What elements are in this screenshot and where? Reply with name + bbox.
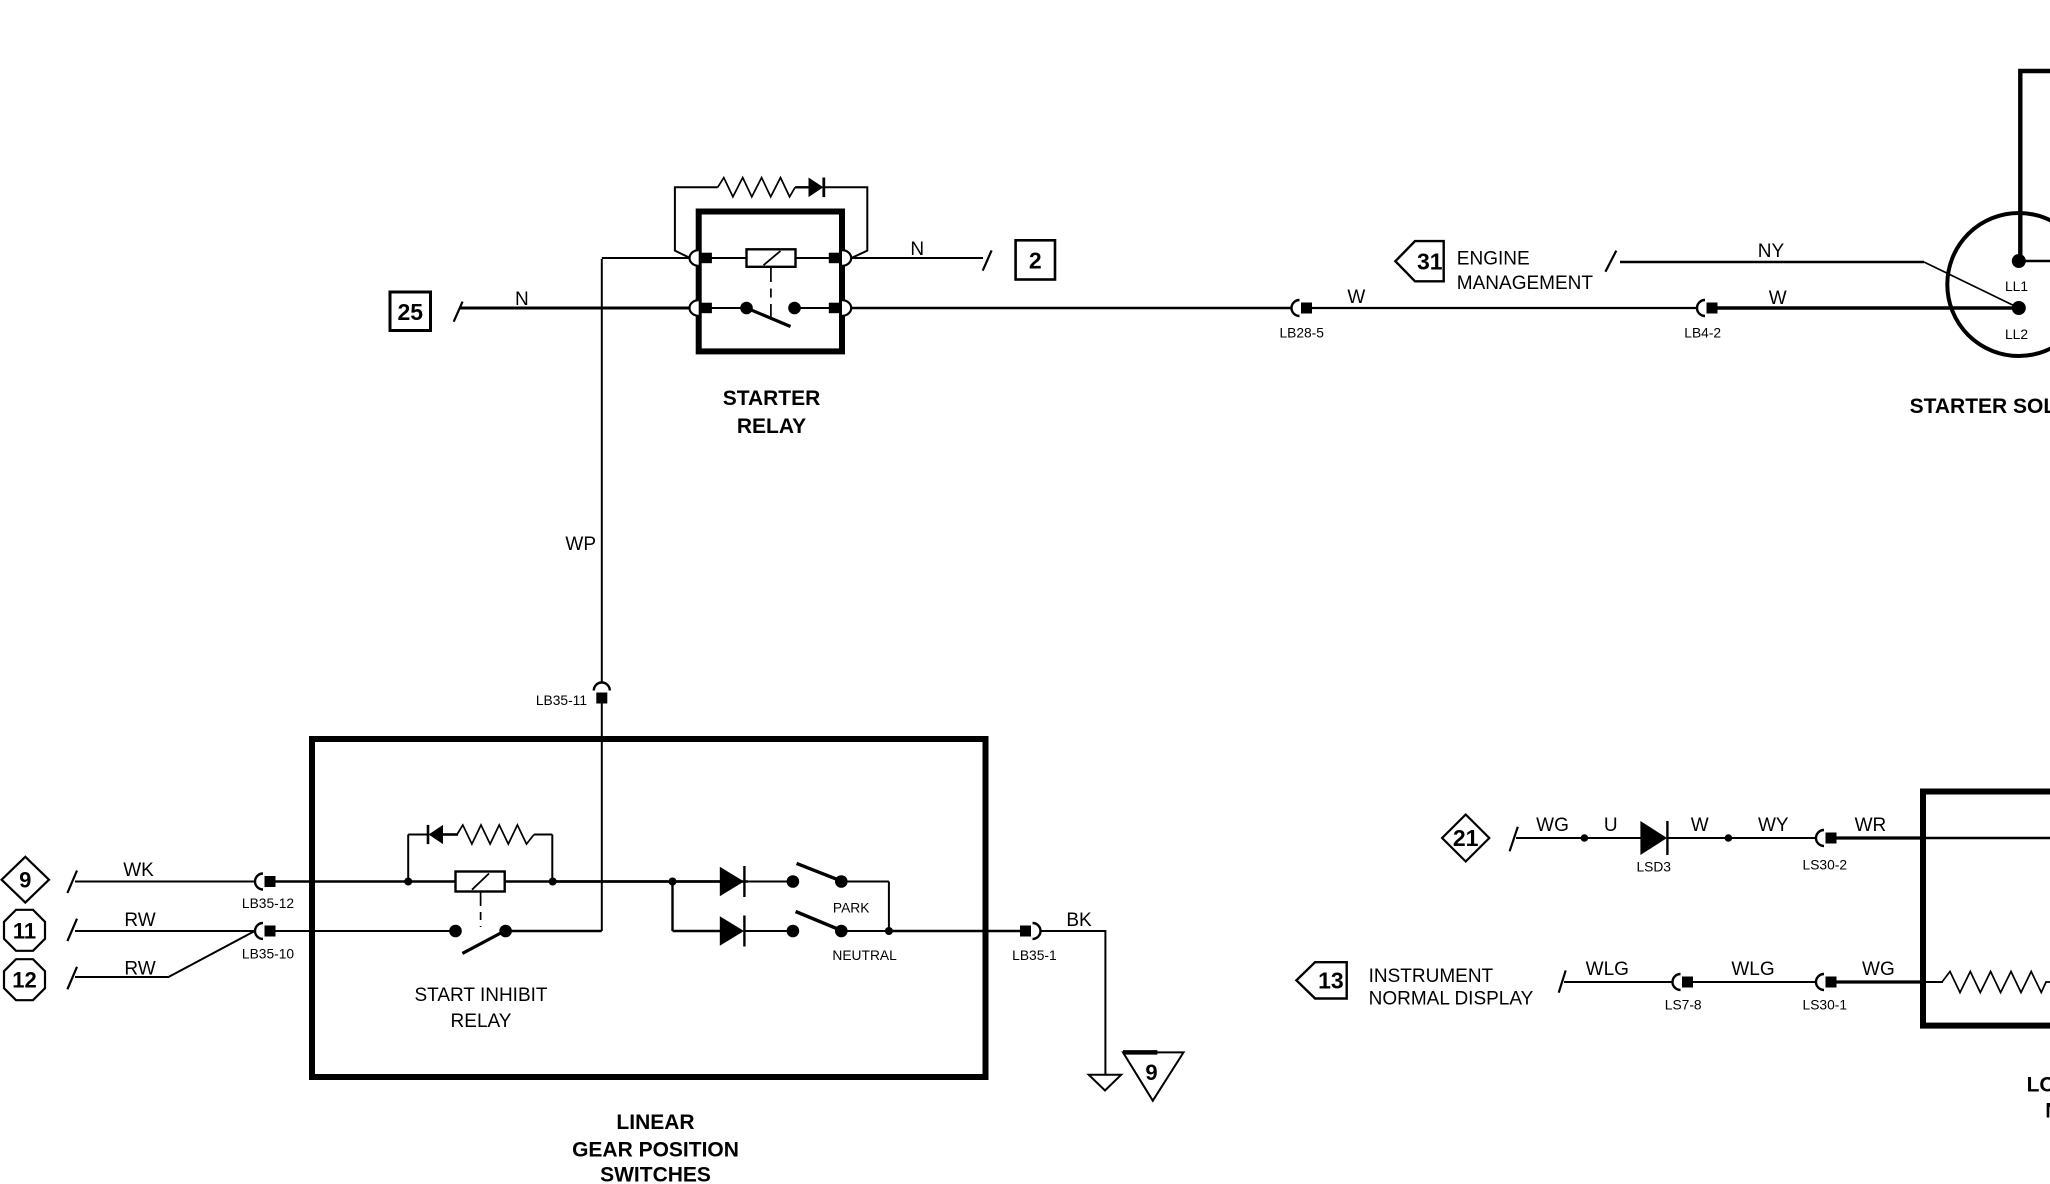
slash on WK wire [67,871,77,894]
tag 12 (octagon) [4,959,45,1000]
svg-text:WG: WG [1536,815,1569,836]
snubber resistor [718,178,795,197]
neutral switch contacts [787,925,848,938]
slash on N wire right [983,250,992,270]
label WY [1758,815,1789,836]
connector LB35-12 [255,874,276,890]
wire WR into logic module [1837,836,2050,839]
svg-text:GEAR POSITION: GEAR POSITION [572,1139,739,1162]
inhibit snubber diode [428,825,458,844]
svg-text:WY: WY [1758,815,1789,836]
tag 25 (power feed) [390,292,431,331]
svg-text:LB35-1: LB35-1 [1012,948,1057,963]
label LB4-2 [1684,326,1721,341]
wire BK to ground [1042,931,1106,1074]
svg-text:MANAGEMENT: MANAGEMENT [1457,273,1594,294]
slash on RW wire (12) [67,967,77,990]
junction on W wire [1725,834,1733,842]
wire W from LB28-5 to LB4-2 [1312,307,1697,309]
label LS7-8 [1665,998,1702,1013]
svg-text:SWITCHES: SWITCHES [600,1164,711,1184]
svg-text:LB35-11: LB35-11 [536,693,587,708]
neutral switch blade [796,912,845,932]
slash on N wire [454,302,463,322]
label START INHIBIT RELAY [414,985,547,1032]
svg-text:WP: WP [565,534,596,555]
wire branch down to neutral line [673,882,722,932]
label U [1604,815,1618,836]
tag 2 (to sheet 2) [1016,240,1055,279]
svg-text:RW: RW [124,910,155,931]
wire WK inside box to coil [267,880,748,882]
starter relay coil [747,249,796,266]
tag 13 instrument display [1296,962,1346,998]
svg-text:21: 21 [1453,825,1479,851]
wire park feed crossing WP [553,880,673,882]
slash on RW wire [67,919,77,941]
label N (wire colour) [515,289,529,310]
wire W to LS30-2 [1668,837,1816,839]
svg-text:WG: WG [1862,959,1895,980]
wire RW from tag 12 joining LB35-10 [75,932,254,978]
wire park to neutral join [841,882,889,932]
svg-text:LINEAR: LINEAR [616,1111,694,1134]
svg-text:12: 12 [12,968,36,993]
connector LB4-2 [1697,300,1718,316]
label LINEAR GEAR POSITION SWITCHES [572,1111,739,1184]
start inhibit relay coil [456,872,505,892]
wire WG to diode LSD3 [1516,837,1641,839]
tag 9 (diamond) [2,857,49,903]
svg-text:PARK: PARK [833,901,870,916]
label WG (into module) [1862,959,1895,980]
ground [1089,1075,1122,1091]
label WK [123,860,154,881]
connector LB35-1 [1020,923,1041,939]
label WLG (second) [1731,959,1774,980]
svg-text:31: 31 [1417,249,1443,275]
svg-text:W: W [1691,815,1709,836]
label WG [1536,815,1569,836]
label LB35-1 [1012,948,1057,963]
wire coil leads inside relay [706,257,836,259]
svg-text:STARTER SOLENOID: STARTER SOLENOID [1910,395,2050,418]
svg-text:LS30-1: LS30-1 [1803,998,1848,1013]
wire neutral to junction [841,930,889,932]
wire W from LB4-2 to LL2 [1718,306,2019,309]
label WR [1855,815,1887,836]
label LOGIC MODULE (clipped) [2027,1074,2050,1123]
label LB35-11 [536,693,587,708]
svg-text:WLG: WLG [1586,959,1629,980]
junction park+neutral [885,927,893,935]
label WP [565,534,596,555]
svg-text:LOGIC: LOGIC [2027,1074,2050,1097]
terminal LL1 [2012,254,2026,268]
linear gear position switches box [312,739,986,1077]
svg-text:2: 2 [1029,247,1042,273]
svg-text:LB35-10: LB35-10 [242,947,294,962]
label LB35-10 [242,947,294,962]
svg-text:LSD3: LSD3 [1636,860,1671,875]
label RW [124,910,155,931]
svg-text:W: W [1769,288,1787,309]
svg-text:LL1: LL1 [2005,279,2028,294]
svg-text:STARTER: STARTER [723,387,821,410]
connector LB28-5 [1292,300,1313,316]
diode park [720,866,745,897]
svg-text:LB4-2: LB4-2 [1684,326,1721,341]
label LS30-2 [1803,858,1848,873]
starter relay box [699,212,842,352]
svg-text:NY: NY [1758,241,1785,262]
starter relay terminal lower-left [690,300,712,316]
svg-text:RELAY: RELAY [737,415,806,438]
label BK [1066,910,1092,931]
junction at inhibit coil right [549,878,557,886]
connector LB35-10 [255,923,276,939]
tag 11 (octagon) [4,910,45,951]
wire RW inside box to inhibit switch [267,930,450,932]
wire feed to LL1 (top right) [2020,71,2050,261]
slash on WLG wire [1559,970,1566,992]
label INSTRUMENT NORMAL DISPLAY [1369,966,1534,1010]
svg-text:WK: WK [123,860,154,881]
svg-text:RELAY: RELAY [451,1011,512,1032]
svg-text:ENGINE: ENGINE [1457,249,1530,270]
label STARTER RELAY [723,387,821,438]
inhibit snubber resistor [457,825,534,844]
tag 21 (diamond) [1442,815,1489,862]
svg-text:25: 25 [398,299,424,325]
slash on NY wire [1605,251,1616,272]
connector LB35-11 [594,683,610,704]
svg-text:WLG: WLG [1731,959,1774,980]
connector LS30-1 [1816,974,1837,990]
junction park/neutral branch [669,878,677,886]
wire LL1 to right edge [2019,260,2050,263]
svg-text:9: 9 [1145,1060,1157,1085]
snubber loop wire left [675,187,718,258]
svg-text:N: N [910,239,924,260]
starter solenoid body [1947,213,2050,356]
snubber loop wire right [825,187,867,258]
inhibit snubber wire left [408,835,428,882]
resistor in logic module [1942,972,2050,993]
svg-text:U: U [1604,815,1618,836]
svg-text:LL2: LL2 [2005,327,2028,342]
label W [1347,287,1365,308]
label LSD3 [1636,860,1671,875]
wire WG into logic module [1837,980,1944,983]
junction at inhibit coil left [404,878,412,886]
diode neutral [720,916,745,947]
wire branch to park diode [673,880,722,882]
wire RW from tag 11 to LB35-10 [75,930,255,932]
wire inhibit switch to WP [506,930,602,932]
wire park diode to contact [745,881,787,883]
starter relay switch contacts [740,302,801,315]
wire WLG to LS7-8 [1564,981,1673,983]
label N (right) [910,239,924,260]
tag 31 engine management [1395,241,1443,281]
label LS30-1 [1803,998,1848,1013]
starter relay terminal upper-right [829,250,851,266]
svg-text:NO: NO [2045,1100,2050,1123]
svg-text:LB28-5: LB28-5 [1279,326,1324,341]
label W (second) [1769,288,1787,309]
svg-text:NEUTRAL: NEUTRAL [832,948,897,963]
label LL2 [2005,327,2028,342]
wire WLG to LS30-1 [1693,981,1816,983]
svg-text:9: 9 [19,868,31,893]
label ENGINE MANAGEMENT [1457,249,1594,295]
slash on WG wire [1510,827,1518,852]
park switch contacts [787,875,848,888]
svg-text:LB35-12: LB35-12 [242,896,294,911]
terminal LL2 [2012,301,2026,315]
label W (LSD3 out) [1691,815,1709,836]
mechanical link (dashed) [770,267,772,325]
svg-text:LS30-2: LS30-2 [1803,858,1848,873]
starter relay terminal lower-right [829,300,851,316]
wire switch leads inside relay [706,307,836,309]
wire W from relay to LB28-5 [852,307,1293,310]
label LB35-12 [242,896,294,911]
svg-text:WR: WR [1855,815,1887,836]
ground ref 9 (triangle) [1123,1052,1184,1100]
label PARK [833,901,870,916]
label RW (second) [124,959,155,980]
svg-text:LS7-8: LS7-8 [1665,998,1702,1013]
wire WK from tag 9 to LB35-12 [75,881,256,883]
svg-text:11: 11 [13,918,36,943]
wire WP into switch box [601,704,603,932]
svg-text:BK: BK [1066,910,1092,931]
connector LS7-8 [1673,974,1694,990]
diode LSD3 [1640,821,1667,855]
wire NY diagonal to LL2 [1924,262,2019,308]
svg-text:INSTRUMENT: INSTRUMENT [1369,966,1494,987]
label LL1 [2005,279,2028,294]
start inhibit switch contacts [449,925,512,938]
label LB28-5 [1279,326,1324,341]
snubber diode [809,178,824,198]
wire NY [1620,261,1924,264]
starter relay terminal upper-left [690,250,712,266]
wire N from 25 to starter relay [460,307,692,310]
label NEUTRAL [832,948,897,963]
wire N from relay to tag 2 [852,257,984,259]
svg-text:13: 13 [1318,968,1344,994]
label STARTER SOLENOID [1910,395,2050,418]
svg-text:NORMAL DISPLAY: NORMAL DISPLAY [1369,989,1534,1010]
svg-text:START INHIBIT: START INHIBIT [414,985,547,1006]
svg-text:W: W [1347,287,1365,308]
label WLG [1586,959,1629,980]
start inhibit switch blade [462,932,503,954]
label NY [1758,241,1785,262]
starter relay switch blade [747,308,791,327]
logic module box [1923,792,2050,1026]
junction on WG wire [1581,834,1589,842]
start inhibit mechanical link (dashed) [480,892,482,927]
snubber diode lead [795,186,808,188]
park switch blade [797,863,845,882]
wire neutral diode to contact [745,930,787,932]
wire BK out of box [889,930,1020,933]
inhibit snubber wire right [534,835,552,882]
connector LS30-2 [1816,830,1837,846]
wire WP vertical from relay coil down to LB35-11 [602,258,692,683]
